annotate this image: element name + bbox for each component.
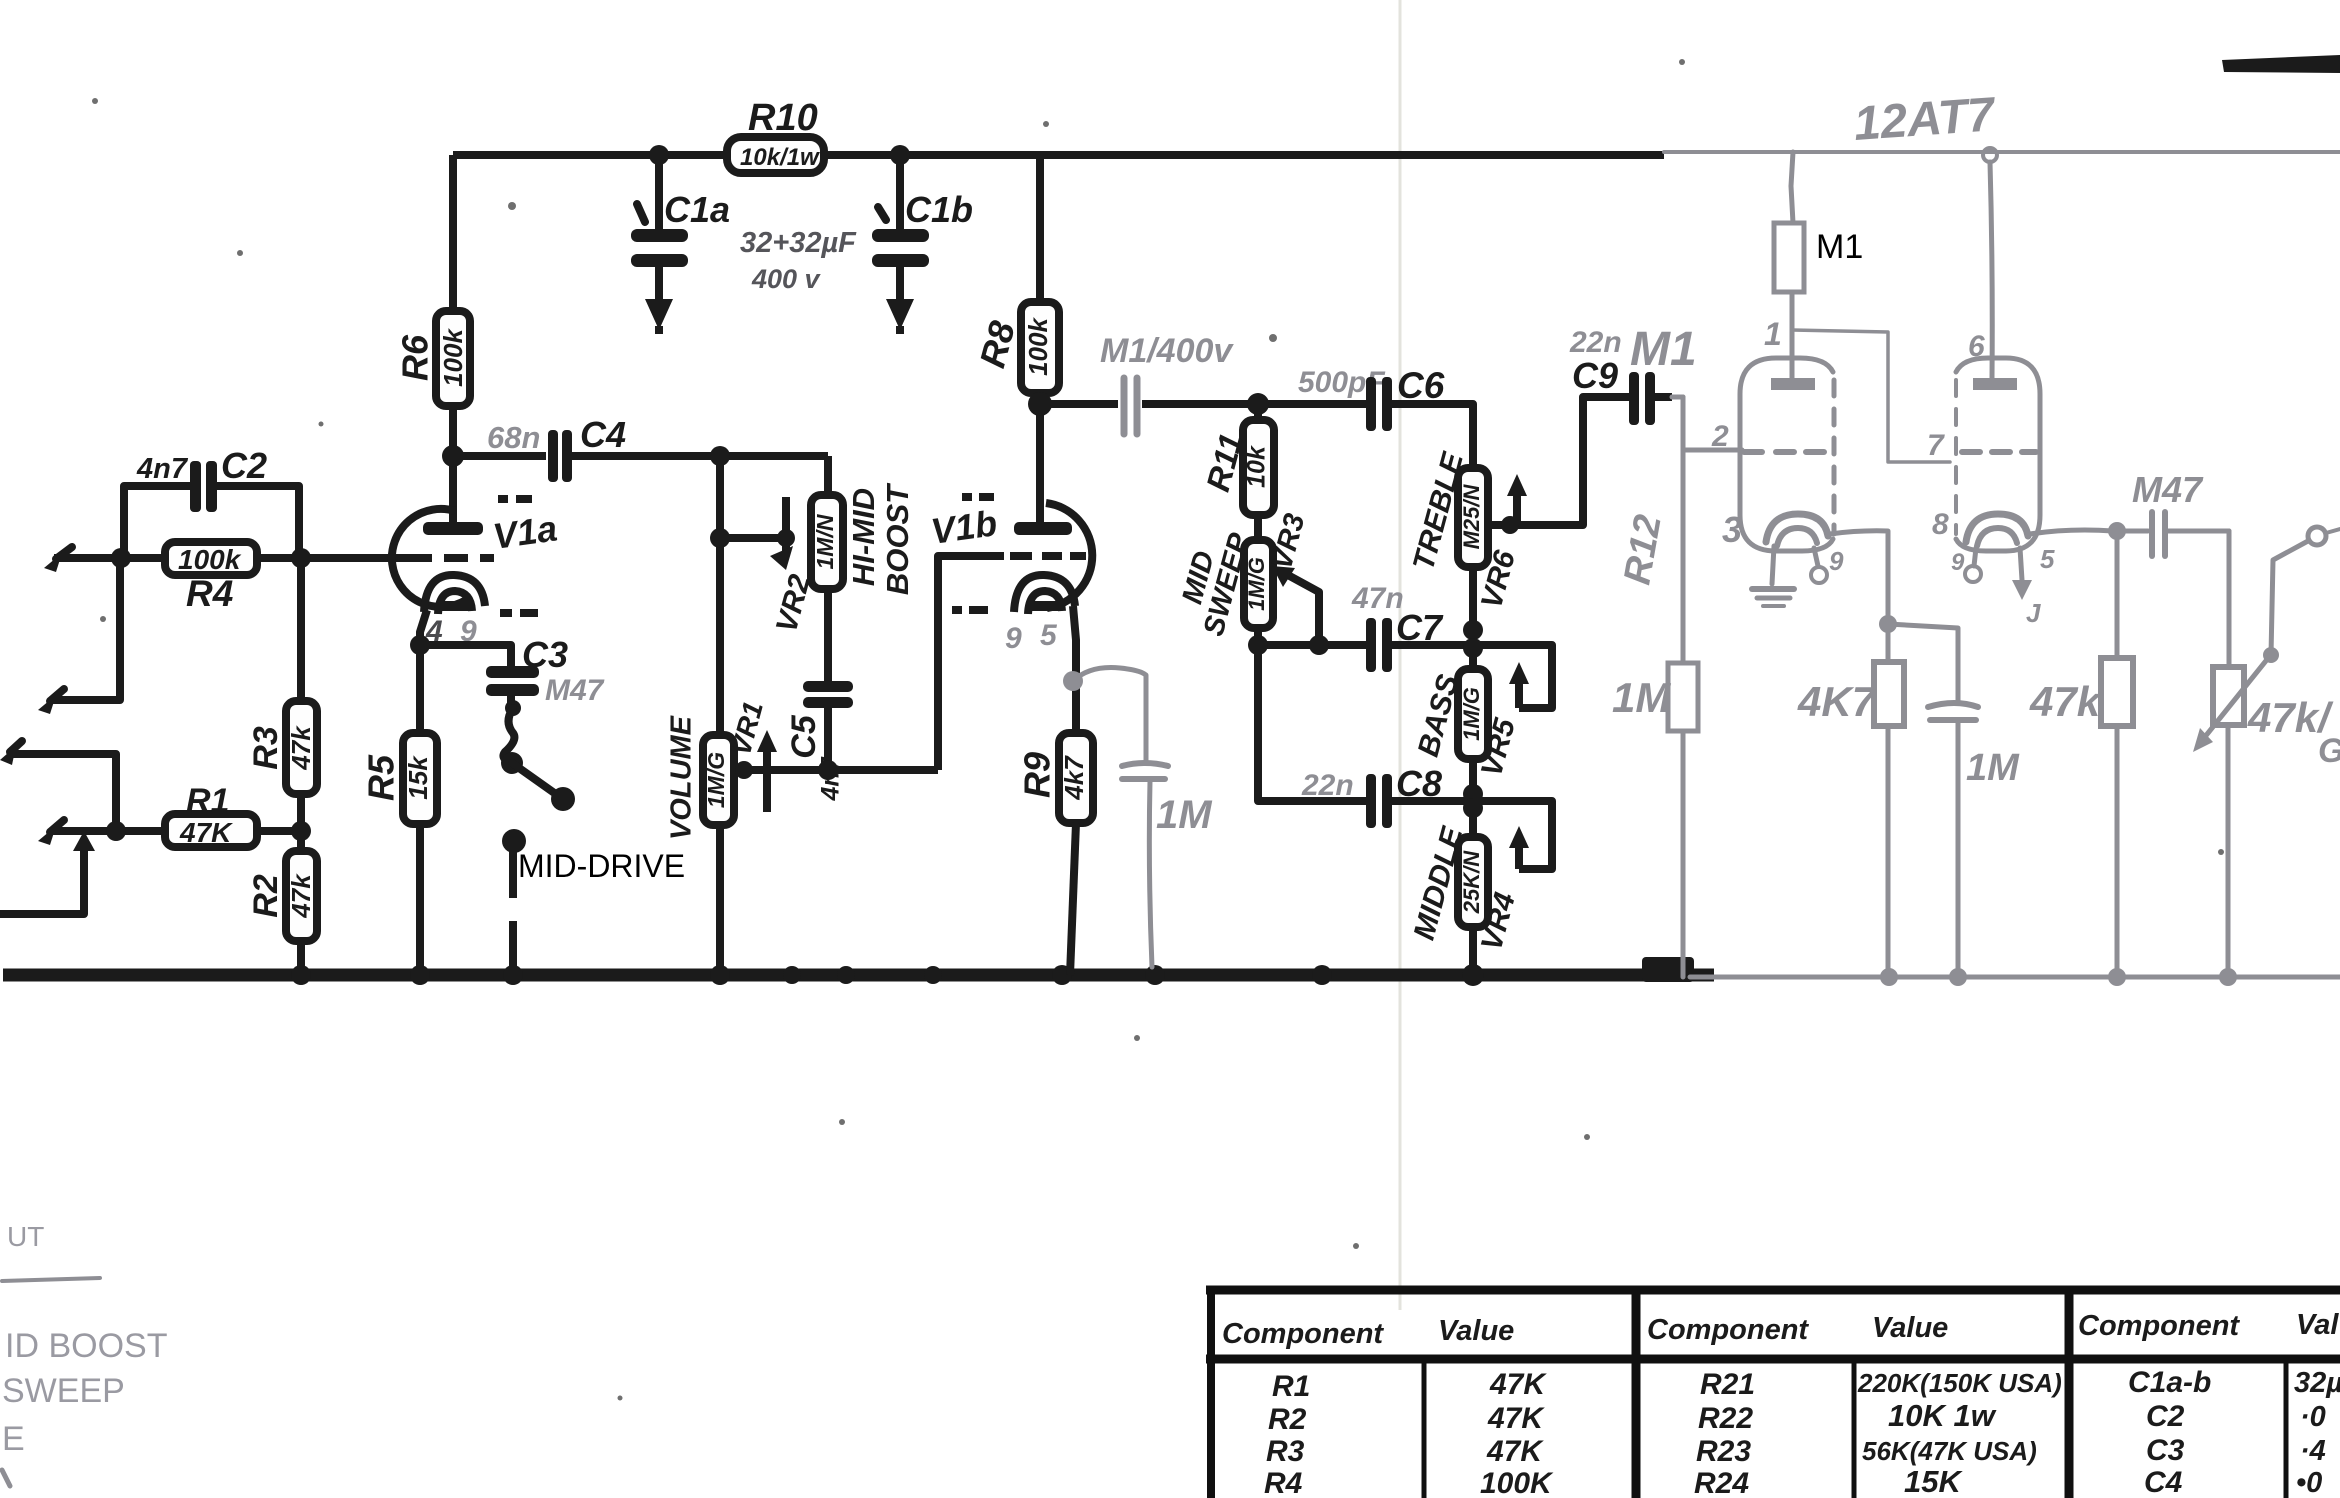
C1a-b value 32+32MF 400V bbox=[740, 227, 857, 294]
pencil capacitor 1M bbox=[1122, 763, 1168, 967]
wire C4 node down to volume bbox=[716, 456, 724, 735]
wire plate row to pencil cap bbox=[1040, 400, 1118, 408]
pot VR6 treble bbox=[1458, 468, 1488, 645]
node bass bottom bbox=[1463, 784, 1483, 818]
svg-text:47K: 47K bbox=[1486, 1435, 1544, 1468]
svg-text:Component: Component bbox=[1647, 1314, 1809, 1346]
wire cathode node to C3 bbox=[420, 645, 511, 669]
svg-text:6: 6 bbox=[1968, 330, 1985, 363]
page fold crease bbox=[1399, 0, 1402, 1310]
table rows col group 2 bbox=[1692, 1368, 2062, 1498]
V2b heater stub arrow bbox=[2012, 544, 2055, 628]
svg-text:25K/N: 25K/N bbox=[1459, 850, 1484, 914]
svg-text:J: J bbox=[2026, 598, 2041, 628]
wire cathode to R9 bbox=[1073, 606, 1076, 733]
svg-text:R22: R22 bbox=[1698, 1402, 1753, 1435]
svg-text:1: 1 bbox=[1764, 316, 1782, 352]
treble wiper row to C9 bbox=[1488, 397, 1630, 534]
svg-text:M25/N: M25/N bbox=[1459, 483, 1484, 549]
V2a cathode bbox=[1766, 514, 1828, 546]
V2a cathode output wire bbox=[1830, 531, 1888, 624]
svg-text:56K(47K USA): 56K(47K USA) bbox=[1862, 1436, 2037, 1466]
node output/47k bbox=[2108, 522, 2126, 540]
wire jack4 to R1 bbox=[52, 827, 165, 835]
svg-text:68n: 68n bbox=[487, 420, 540, 455]
ground stub arrow lower-left bbox=[0, 831, 95, 914]
svg-text:47K: 47K bbox=[179, 817, 233, 848]
svg-text:C1a-b: C1a-b bbox=[2128, 1366, 2211, 1399]
svg-text:15K: 15K bbox=[1904, 1464, 1963, 1498]
node V1b plate bbox=[1028, 392, 1052, 416]
svg-text:22n: 22n bbox=[1569, 326, 1622, 359]
wire jack3 to R1 line bbox=[8, 754, 116, 831]
node treble bottom bbox=[1463, 620, 1483, 658]
triode V2a envelope bbox=[1740, 358, 1834, 551]
V2a grid dashes bbox=[1744, 449, 1828, 455]
capacitor C2 bbox=[124, 461, 299, 558]
svg-text:M1: M1 bbox=[1630, 323, 1697, 376]
bypass cap branch bbox=[1888, 624, 1958, 703]
svg-text:Component: Component bbox=[1222, 1318, 1384, 1350]
resistor R11 bbox=[1243, 404, 1274, 540]
V2b cathode output wire bbox=[2030, 530, 2113, 534]
svg-text:C2: C2 bbox=[221, 445, 267, 486]
wire switch to rail bbox=[509, 849, 517, 975]
output terminal circle bbox=[2308, 527, 2340, 545]
svg-text:HI-MID: HI-MID bbox=[846, 488, 881, 586]
svg-text:Val: Val bbox=[2296, 1309, 2339, 1341]
capacitor C1b bbox=[872, 145, 929, 301]
node R11 top bbox=[1247, 393, 1269, 415]
wire wiper row up to V1b grid bbox=[938, 556, 1004, 770]
wire cathode to node bbox=[420, 610, 427, 645]
pencil capacitor 1M bypass bbox=[1928, 703, 1978, 977]
capacitor C6 bbox=[1366, 377, 1473, 468]
resistor R4 bbox=[165, 542, 257, 575]
pencil HT rail bbox=[1664, 150, 2340, 154]
junction on R1 line bbox=[106, 821, 126, 841]
svg-text:M1: M1 bbox=[1816, 228, 1863, 266]
pot VR5 bass bbox=[1458, 645, 1488, 801]
svg-text:C2: C2 bbox=[2146, 1400, 2185, 1433]
VR3 wiper bbox=[1272, 566, 1319, 645]
node R4/R3 bbox=[291, 548, 311, 568]
svg-text:C1a: C1a bbox=[664, 189, 730, 230]
svg-text:R24: R24 bbox=[1694, 1467, 1749, 1498]
capacitor C9 bbox=[1629, 372, 1672, 425]
V1a shared-envelope dashes top bbox=[498, 495, 532, 503]
pot VR2 hi-mid boost bbox=[811, 495, 843, 589]
svg-text:1M/G: 1M/G bbox=[1459, 687, 1484, 741]
svg-text:Value: Value bbox=[1438, 1315, 1514, 1347]
V2b cathode bbox=[1966, 514, 2028, 546]
grid wire to V2a pin2 bbox=[1683, 448, 1742, 453]
resistor R6 bbox=[436, 311, 470, 406]
V1b lower shared dashes bbox=[952, 606, 988, 614]
V1a grid dashes bbox=[404, 554, 494, 562]
svg-text:G: G bbox=[2318, 732, 2340, 770]
switch contact dot bbox=[502, 829, 526, 853]
middle wiper arrow bbox=[1509, 826, 1529, 869]
svg-text:R1: R1 bbox=[186, 782, 229, 820]
svg-text:R9: R9 bbox=[1017, 752, 1058, 798]
svg-text:100K: 100K bbox=[1480, 1467, 1554, 1498]
component table frame bbox=[1206, 1286, 2340, 1498]
wire jack1 to R4 bbox=[54, 554, 165, 562]
node C5 / volume wiper row bbox=[818, 760, 838, 780]
svg-text:C8: C8 bbox=[1396, 763, 1442, 804]
input jack 4 bbox=[38, 820, 64, 845]
svg-text:47k: 47k bbox=[286, 873, 316, 919]
svg-text:M47: M47 bbox=[545, 674, 605, 707]
treble wiper arrow bbox=[1507, 474, 1527, 525]
bottom ground rail bbox=[3, 957, 1714, 982]
resistor M1 anode bbox=[1774, 152, 1804, 382]
svg-text:R3: R3 bbox=[247, 726, 285, 770]
svg-text:M1/400v: M1/400v bbox=[1100, 332, 1234, 370]
node R1/R2/R3 bbox=[291, 821, 311, 841]
svg-text:3: 3 bbox=[1722, 509, 1742, 550]
svg-text:R4: R4 bbox=[186, 573, 233, 614]
svg-text:R10: R10 bbox=[748, 97, 818, 139]
svg-text:100k: 100k bbox=[438, 328, 468, 387]
svg-text:9: 9 bbox=[1951, 549, 1965, 576]
VR2 wiper arm bbox=[770, 497, 795, 570]
svg-text:E: E bbox=[2, 1420, 25, 1458]
capacitor M47 out bbox=[2117, 512, 2229, 556]
svg-text:400 v: 400 v bbox=[751, 264, 822, 294]
svg-text:M47: M47 bbox=[2132, 469, 2204, 510]
svg-text:5: 5 bbox=[1040, 619, 1058, 652]
table rows col group 3 bbox=[2128, 1366, 2340, 1498]
capacitor C5 bbox=[803, 681, 853, 770]
svg-text:R6: R6 bbox=[395, 334, 436, 381]
wire VR2 to C5 bbox=[824, 589, 832, 684]
pencil legend bottom left bbox=[2, 1221, 167, 1458]
pot VR3 mid sweep bbox=[1244, 540, 1273, 645]
V1b grid dashes bbox=[1010, 552, 1086, 560]
svg-text:47n: 47n bbox=[1351, 582, 1404, 615]
wire VR3 node down to C8 bbox=[1258, 645, 1368, 801]
resistor R3 bbox=[286, 701, 317, 794]
triode V1a envelope bbox=[392, 509, 466, 607]
resistor R8 bbox=[1021, 155, 1059, 405]
svg-text:•0: •0 bbox=[2296, 1467, 2322, 1498]
svg-text:32µ: 32µ bbox=[2294, 1367, 2340, 1399]
svg-text:4K7: 4K7 bbox=[1797, 678, 1877, 725]
wire R3 to R1 node bbox=[297, 794, 305, 851]
pencil ground rail right bbox=[1690, 968, 2340, 986]
ground symbol C1b bbox=[886, 299, 914, 330]
svg-text:22n: 22n bbox=[1301, 769, 1354, 802]
node cathode/4k7 bbox=[1879, 615, 1897, 633]
resistor R10 bbox=[727, 137, 824, 173]
resistor R1 bbox=[165, 814, 257, 848]
svg-text:R2: R2 bbox=[1268, 1403, 1307, 1436]
wire pencil cap to C6 bbox=[1142, 400, 1368, 408]
pot 47k/G bbox=[2193, 531, 2269, 977]
V2a cathode ground leg bbox=[1752, 546, 1794, 606]
V2b pin9 stub bbox=[1951, 548, 1981, 582]
svg-text:BOOST: BOOST bbox=[880, 482, 915, 595]
capacitor C1a bbox=[631, 145, 688, 301]
V2b grid dashes bbox=[1962, 449, 2036, 455]
svg-text:R21: R21 bbox=[1700, 1368, 1755, 1401]
svg-text:MID-DRIVE: MID-DRIVE bbox=[518, 848, 685, 884]
wire C4 line corner down to VR2 bbox=[824, 456, 832, 495]
volume wiper row wire bbox=[734, 766, 938, 774]
svg-text:1M: 1M bbox=[1156, 793, 1213, 837]
V1a lower shared dashes bbox=[500, 609, 538, 617]
svg-text:C4: C4 bbox=[580, 414, 626, 455]
svg-text:R1: R1 bbox=[1272, 1370, 1310, 1403]
svg-text:C9: C9 bbox=[1572, 355, 1618, 396]
V1b shared dashes top bbox=[962, 493, 994, 501]
svg-text:R3: R3 bbox=[1266, 1435, 1305, 1468]
wire R2 to rail bbox=[297, 941, 305, 975]
capacitor C8 bbox=[1366, 774, 1473, 828]
resistor 47k bbox=[2101, 531, 2133, 977]
svg-text:C3: C3 bbox=[522, 634, 568, 675]
cathode node bbox=[410, 635, 430, 655]
svg-text:C5: C5 bbox=[785, 714, 823, 759]
wire R8 to V1b plate bbox=[1036, 405, 1044, 524]
svg-text:9: 9 bbox=[1829, 546, 1844, 576]
svg-text:·0: ·0 bbox=[2300, 1401, 2326, 1433]
triode V1b envelope bbox=[1046, 503, 1092, 608]
svg-text:C4: C4 bbox=[2144, 1466, 2183, 1498]
47k/G value label bbox=[2247, 694, 2340, 770]
svg-text:2: 2 bbox=[1711, 420, 1729, 453]
wiper to output jack bbox=[2263, 541, 2308, 663]
pins 9 5 bbox=[1005, 619, 1058, 655]
mid-drive switch squiggle bbox=[501, 700, 575, 811]
node C4 out / volume top bbox=[710, 446, 730, 466]
input jack 1 bbox=[44, 547, 72, 572]
node C9 out / grid feed bbox=[1672, 397, 1683, 663]
direct coupling V2a plate to V2b grid bbox=[1792, 330, 1950, 462]
black bar top right corner bbox=[2222, 55, 2340, 73]
svg-text:1M: 1M bbox=[1612, 674, 1671, 721]
V2b plate bbox=[1973, 378, 2017, 390]
svg-text:4n7: 4n7 bbox=[136, 453, 189, 485]
pencil series cap M1/400V bbox=[1124, 378, 1137, 434]
resistor R2 bbox=[286, 851, 317, 941]
svg-text:ID BOOST: ID BOOST bbox=[5, 1327, 167, 1365]
svg-text:Value: Value bbox=[1872, 1312, 1948, 1344]
svg-text:47K: 47K bbox=[1489, 1368, 1547, 1401]
wire R1 node bbox=[257, 827, 301, 835]
capacitor C7 bbox=[1366, 618, 1473, 672]
svg-text:SWEEP: SWEEP bbox=[2, 1372, 125, 1410]
V1b cathode bbox=[1014, 575, 1075, 614]
pot VR1 volume bbox=[703, 735, 734, 975]
HI-MID BOOST label bbox=[846, 482, 915, 595]
svg-text:47k: 47k bbox=[2029, 678, 2103, 725]
small pencil mark bottom-left corner bbox=[2, 1470, 10, 1486]
svg-text:12AT7: 12AT7 bbox=[1852, 88, 1998, 151]
resistor R9 bbox=[1059, 733, 1093, 975]
svg-text:10K 1w: 10K 1w bbox=[1888, 1398, 1997, 1433]
svg-text:8: 8 bbox=[1932, 508, 1949, 541]
triode V2b envelope bbox=[1956, 358, 2040, 551]
C1b polarity arrow bbox=[878, 207, 886, 220]
svg-text:47K: 47K bbox=[1487, 1402, 1545, 1435]
wire jack2 up to node A bbox=[52, 558, 120, 700]
input jack 2 bbox=[38, 689, 64, 714]
table headers bbox=[1222, 1309, 2339, 1350]
svg-text:1M/N: 1M/N bbox=[812, 514, 838, 569]
node plate/C4 bbox=[442, 445, 464, 467]
grid resistor 1M bbox=[1668, 663, 1698, 977]
svg-text:15k: 15k bbox=[403, 755, 433, 800]
V2b plate lead to rail bbox=[1983, 148, 1997, 378]
svg-text:10k: 10k bbox=[1243, 445, 1271, 488]
bass top loop to wiper bbox=[1473, 645, 1552, 708]
node VR3 bottom row bbox=[1248, 635, 1368, 655]
MID SWEEP label bbox=[1176, 529, 1256, 639]
svg-text:R5: R5 bbox=[361, 754, 402, 801]
svg-text:7: 7 bbox=[1927, 429, 1945, 462]
volume wiper arrow bbox=[757, 730, 777, 812]
svg-text:C3: C3 bbox=[2146, 1434, 2185, 1467]
HT top rail bbox=[453, 155, 1664, 311]
pencil wire to 1M cap bbox=[1073, 668, 1146, 763]
table rows col group 1 bbox=[1262, 1368, 1554, 1498]
svg-text:10k/1w: 10k/1w bbox=[740, 144, 820, 171]
pot VR4 middle bbox=[1458, 801, 1488, 975]
V2a plate bbox=[1771, 378, 1815, 390]
resistor R5 bbox=[403, 645, 437, 975]
svg-text:R4: R4 bbox=[1264, 1467, 1303, 1498]
ground symbol C1a bbox=[645, 299, 673, 330]
wire C4 row bbox=[453, 452, 546, 460]
svg-text:R23: R23 bbox=[1696, 1435, 1751, 1468]
svg-text:4k7: 4k7 bbox=[1059, 755, 1089, 801]
svg-text:100k: 100k bbox=[1023, 317, 1053, 376]
wire node to R3 bbox=[297, 558, 305, 701]
svg-text:R2: R2 bbox=[247, 874, 285, 918]
capacitor C4 bbox=[548, 430, 828, 482]
svg-text:32+32µF: 32+32µF bbox=[740, 227, 857, 259]
svg-text:1M/G: 1M/G bbox=[703, 752, 729, 808]
wire R4 to V1a grid bbox=[257, 554, 404, 562]
wire R6 to plate node bbox=[449, 406, 457, 524]
middle top loop to wiper bbox=[1473, 801, 1552, 869]
V1b plate bbox=[1014, 522, 1072, 535]
V2a pin9 stub bbox=[1811, 546, 1844, 583]
wire node to VR2 wiper bbox=[720, 534, 786, 542]
svg-text:47k: 47k bbox=[286, 725, 316, 771]
svg-text:C1b: C1b bbox=[905, 189, 973, 230]
svg-text:5: 5 bbox=[2040, 544, 2055, 574]
pencil tap dot on cathode line bbox=[1063, 671, 1083, 691]
svg-text:1M: 1M bbox=[1966, 747, 2020, 789]
node VR2 wiper tie bbox=[710, 528, 730, 548]
C1a polarity arrow bbox=[637, 204, 645, 222]
bass wiper arrow bbox=[1509, 662, 1529, 708]
resistor 4K7 bbox=[1874, 624, 1904, 977]
svg-text:100k: 100k bbox=[178, 544, 242, 575]
V1a cathode bbox=[424, 575, 485, 614]
input jack 3 bbox=[0, 741, 22, 765]
svg-text:Component: Component bbox=[2078, 1310, 2240, 1342]
svg-text:220K(150K USA): 220K(150K USA) bbox=[1857, 1368, 2062, 1398]
svg-text:VOLUME: VOLUME bbox=[666, 714, 698, 840]
V1a plate bbox=[423, 522, 483, 535]
capacitor C3 bbox=[486, 666, 539, 703]
svg-text:UT: UT bbox=[7, 1221, 44, 1252]
svg-text:C6: C6 bbox=[1397, 365, 1445, 406]
rail junction dots bbox=[291, 964, 1484, 986]
svg-text:·4: ·4 bbox=[2300, 1435, 2326, 1467]
node A (input mix node) bbox=[111, 548, 131, 568]
svg-text:9: 9 bbox=[1005, 622, 1022, 655]
